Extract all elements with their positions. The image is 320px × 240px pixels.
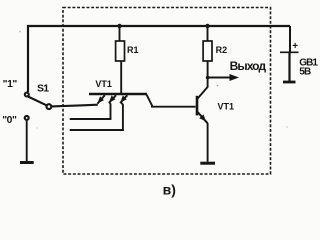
wire: rail to battery positive bbox=[289, 26, 291, 52]
battery GB1 negative plate bbox=[283, 81, 296, 84]
wire: "0" contact to ground bbox=[26, 120, 28, 161]
wire: R2 top stem bbox=[207, 26, 209, 42]
svg-text:Выход: Выход bbox=[230, 59, 267, 73]
switch S1 contact "0" bbox=[25, 116, 29, 120]
switch S1 contact "1" bbox=[25, 93, 29, 97]
wire: input stub 3 bbox=[70, 129, 124, 131]
node: R1 junction dot bbox=[117, 24, 121, 28]
svg-text:в): в) bbox=[163, 182, 176, 198]
wire: input stub 2 bbox=[70, 118, 112, 120]
svg-text:S1: S1 bbox=[37, 83, 49, 95]
transistor VT1 emitter 2 arrow bbox=[109, 95, 116, 119]
wire: R1 top stem bbox=[119, 26, 121, 42]
svg-text:5В: 5В bbox=[299, 66, 311, 77]
svg-text:"1": "1" bbox=[3, 79, 18, 90]
switch S1 lever bbox=[28, 97, 47, 106]
transistor VT2 collector bbox=[197, 87, 207, 99]
ground ("0" contact) bbox=[20, 161, 34, 164]
transistor VT2 emitter arrow bbox=[197, 112, 207, 124]
scan speck 3 bbox=[286, 126, 288, 128]
resistor R1 bbox=[116, 41, 125, 61]
transistor VT1 emitter 3 arrow bbox=[120, 95, 127, 130]
wire: R1 bottom stem to VT1 base bbox=[120, 61, 122, 94]
svg-text:VT1: VT1 bbox=[95, 79, 112, 89]
svg-text:VT1: VT1 bbox=[218, 102, 235, 112]
wire: battery internal stem bbox=[288, 53, 290, 81]
wire: VT2 emitter to ground bbox=[207, 123, 209, 162]
node: output junction dot bbox=[206, 76, 210, 80]
wire: switch pole to emitter 1 bbox=[52, 105, 98, 107]
svg-text:+: + bbox=[292, 41, 298, 52]
transistor VT1 emitter 1 arrow bbox=[97, 95, 104, 103]
wire: VT1 collector bend to VT2 base bbox=[147, 95, 196, 107]
scan speck 4 bbox=[36, 127, 38, 129]
resistor R2 bbox=[203, 41, 212, 61]
wire: +5V top rail bbox=[28, 26, 290, 92]
wire: R2 bottom stem to VT2 collector bbox=[207, 61, 209, 88]
svg-text:R1: R1 bbox=[127, 45, 139, 55]
transistor VT2 base bar bbox=[196, 96, 199, 116]
battery GB1 positive plate bbox=[280, 51, 299, 53]
wire: output arrow bbox=[208, 74, 239, 81]
switch S1 pole bbox=[47, 104, 52, 109]
scan speck 2 bbox=[217, 85, 219, 87]
svg-text:"0": "0" bbox=[2, 115, 17, 126]
dashed enclosure box bbox=[63, 8, 271, 175]
transistor VT1 base bar bbox=[89, 93, 147, 96]
node: R2 junction dot bbox=[205, 24, 209, 28]
ground (VT2 emitter) bbox=[200, 162, 215, 165]
scan speck 1 bbox=[19, 31, 21, 33]
svg-text:R2: R2 bbox=[216, 45, 228, 55]
